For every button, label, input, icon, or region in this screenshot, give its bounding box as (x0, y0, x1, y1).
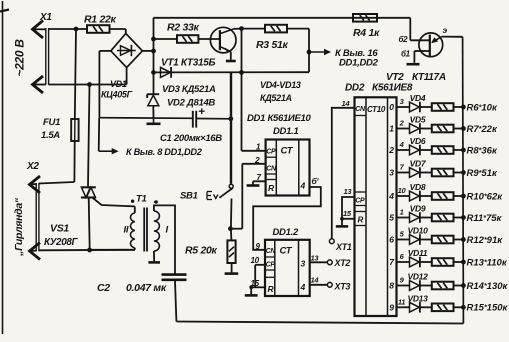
svg-text:КД521А: КД521А (260, 93, 292, 103)
switch SB1 contact (229, 184, 233, 188)
T1 winding II (130, 213, 134, 248)
wire (454, 149, 464, 151)
svg-text:10: 10 (251, 256, 260, 265)
diode VD3 (161, 67, 171, 77)
svg-text:SB1: SB1 (180, 191, 198, 202)
resistor R12 (432, 236, 454, 244)
svg-text:6: 6 (389, 235, 394, 245)
svg-text:VD1: VD1 (110, 79, 127, 89)
wire (397, 195, 410, 197)
DD1.1 output wire to DD1.2 (253, 187, 321, 250)
node junction (bus) (461, 194, 466, 199)
diode VD12 (410, 281, 420, 291)
resistor R13 (432, 258, 454, 266)
wire (241, 29, 243, 151)
wire (454, 172, 464, 174)
capacitor C1 (polarized) (192, 111, 194, 128)
wire (134, 206, 136, 213)
wire (230, 228, 242, 230)
wire (88, 85, 90, 187)
ground symbol (DD1.1 R) (252, 181, 254, 185)
svg-text:R14*130к: R14*130к (467, 281, 509, 292)
svg-text:К Выв. 8 DD1,DD2: К Выв. 8 DD1,DD2 (126, 147, 203, 157)
svg-text:3: 3 (389, 168, 394, 178)
node junction (151, 49, 156, 54)
wire (emitter to bus) (442, 36, 463, 38)
svg-text:ХТ2: ХТ2 (334, 258, 351, 268)
svg-text:VD7: VD7 (410, 159, 427, 169)
node junction (249, 285, 253, 289)
connector X2 contact lines (35, 183, 37, 251)
wire (287, 28, 309, 30)
capacitor C2 (162, 273, 187, 276)
svg-text:R2 33к: R2 33к (167, 22, 200, 34)
diode VD7 (410, 168, 420, 178)
svg-text:VD5: VD5 (410, 115, 426, 125)
svg-text:1: 1 (389, 124, 394, 134)
svg-text:VD2 Д814В: VD2 Д814В (167, 98, 215, 109)
svg-text:VD4: VD4 (410, 93, 426, 103)
svg-text:VD13: VD13 (407, 293, 428, 303)
wire (DD2 clock / XT1) (332, 108, 355, 239)
svg-text:С2: С2 (97, 282, 110, 294)
svg-text:VD10: VD10 (407, 226, 428, 236)
svg-text:4: 4 (300, 181, 306, 191)
VT1 emitter to ground (230, 52, 232, 60)
svg-text:VT2: VT2 (386, 72, 404, 83)
connector X2 pin arrow (bottom) (30, 243, 41, 260)
svg-text:VD6: VD6 (410, 136, 426, 146)
node junction (VS1 branch) (87, 82, 92, 87)
svg-text:15: 15 (343, 209, 352, 218)
svg-text:э: э (443, 25, 448, 35)
svg-text:11: 11 (398, 298, 405, 307)
svg-text:R3 51к: R3 51к (256, 39, 289, 51)
wire (409, 18, 411, 41)
svg-text:DD2: DD2 (345, 83, 365, 94)
label Girlyanda (garland) (13, 197, 25, 257)
wire (397, 149, 410, 151)
svg-text:R5 20к: R5 20к (185, 245, 218, 257)
wire (420, 217, 431, 219)
svg-text:VD11: VD11 (408, 248, 428, 258)
DD1.1 pin 7 wire (253, 180, 266, 182)
wire (49, 28, 87, 30)
diode VD8 (410, 191, 420, 201)
svg-text:10: 10 (398, 186, 407, 195)
DD1.1 pin 2 wire (242, 163, 265, 165)
DD2 CP/R wires (342, 197, 355, 225)
svg-text:Т1: Т1 (136, 194, 147, 205)
node junction (bus) (461, 237, 466, 242)
terminal XT3 (327, 282, 332, 287)
transistor VT1 KT315B (210, 27, 236, 53)
node junction (307, 50, 312, 55)
node junction (bus) (461, 126, 466, 131)
wire (454, 128, 464, 130)
svg-text:4: 4 (300, 282, 306, 292)
resistor R4 (353, 14, 377, 22)
wire to XT2 (310, 261, 328, 263)
resistor R8 (432, 146, 454, 154)
resistor R11 (432, 214, 454, 222)
svg-text:R7*22к: R7*22к (467, 124, 498, 135)
svg-text:СN: СN (355, 106, 366, 113)
svg-text:2: 2 (388, 145, 394, 155)
node junction (228, 116, 233, 121)
wire (134, 248, 136, 250)
svg-text:К561ИЕ8: К561ИЕ8 (372, 83, 413, 94)
wire (126, 68, 128, 85)
wire (154, 71, 310, 73)
connector X1 contact lines (45, 28, 47, 85)
wire (33, 84, 46, 86)
ground symbol (T1 winding I) (148, 261, 160, 264)
wire (154, 201, 156, 203)
wire (397, 239, 410, 241)
connector X2 pin arrow (top) (30, 176, 41, 193)
diode VD5 (410, 124, 420, 134)
node junction (bus) (461, 105, 466, 110)
DD1.2 pin 10 wire (255, 264, 265, 266)
node junction (fuse tap) (74, 27, 79, 32)
ground symbol (DD2 CP,R) (336, 225, 348, 228)
svg-text:DD1 К561ИЕ10: DD1 К561ИЕ10 (247, 113, 311, 124)
wire (397, 261, 410, 263)
wire (420, 128, 431, 130)
svg-text:~220 В: ~220 В (13, 39, 27, 77)
ground symbol (DD1.2 R) (250, 287, 252, 294)
VS1 gate wire (93, 198, 135, 207)
svg-text:VD12: VD12 (407, 272, 428, 282)
svg-text:КЦ405Г: КЦ405Г (101, 90, 133, 100)
wire (420, 306, 431, 308)
wire (98, 118, 101, 152)
resistor R2 (177, 35, 198, 43)
svg-text:б2: б2 (399, 35, 409, 44)
wire (154, 38, 178, 40)
svg-text:б1: б1 (401, 50, 411, 59)
svg-text:„Гирлянда“: „Гирлянда“ (13, 197, 25, 257)
svg-text:13: 13 (344, 187, 353, 196)
counter DD1.2 box (265, 240, 310, 296)
wire (420, 149, 431, 151)
svg-text:1.5А: 1.5А (41, 130, 60, 141)
svg-text:R4 1к: R4 1к (353, 27, 380, 39)
resistor R6 (432, 103, 454, 111)
wire (110, 28, 126, 30)
wire (454, 285, 464, 287)
svg-text:СТ: СТ (280, 246, 293, 257)
ground symbol (R5) (225, 272, 239, 275)
svg-text:3: 3 (301, 259, 306, 269)
svg-text:R: R (358, 216, 364, 225)
svg-text:DD1.2: DD1.2 (273, 227, 299, 238)
node junction (bus) (461, 305, 466, 310)
ground symbol (VT2 b1) (407, 63, 420, 66)
wire (454, 261, 464, 263)
svg-text:СР: СР (266, 149, 276, 156)
wire (142, 50, 153, 52)
wire (39, 182, 75, 184)
svg-text:R13*110к: R13*110к (467, 257, 508, 268)
node junction (bus) (461, 170, 466, 175)
wire (420, 285, 431, 287)
switch SB1 actuator (206, 192, 208, 200)
wire (234, 28, 242, 30)
T1 core (143, 208, 145, 252)
svg-text:VT1 КТ315Б: VT1 КТ315Б (161, 58, 215, 69)
wire (230, 199, 233, 229)
wire (397, 128, 410, 130)
counter DD1.1 box (266, 140, 310, 196)
node junction (239, 26, 244, 31)
resistor R15 (432, 304, 454, 312)
svg-text:Х2: Х2 (26, 161, 39, 172)
node junction (bus) (461, 260, 466, 265)
node junction (340, 217, 344, 221)
svg-text:DD1.1: DD1.1 (273, 126, 298, 137)
svg-text:0: 0 (389, 102, 394, 112)
switch SB1 lever (219, 188, 233, 198)
svg-text:14: 14 (311, 276, 320, 285)
svg-text:СР: СР (266, 262, 276, 269)
wire (231, 263, 233, 273)
svg-text:R9*51к: R9*51к (467, 168, 498, 179)
resistor R1 (87, 25, 110, 33)
svg-text:R8*36к: R8*36к (467, 145, 498, 156)
wire (397, 306, 410, 308)
wire (420, 195, 431, 197)
triac VS1 (81, 186, 96, 188)
svg-text:VS1: VS1 (50, 223, 69, 235)
diode VD4 (410, 102, 420, 112)
svg-text:R1 22к: R1 22к (84, 14, 117, 26)
node junction (228, 226, 233, 231)
ground symbol (153, 118, 155, 123)
resistor R9 (432, 169, 454, 177)
svg-text:СТ: СТ (281, 146, 294, 157)
wire (49, 84, 127, 86)
DD1.1 pin 1 wire (242, 150, 266, 152)
svg-text:9: 9 (389, 303, 394, 313)
DD1.2 pin 15 wire (251, 286, 265, 288)
node junction (bus) (461, 148, 466, 153)
svg-text:R15*150к: R15*150к (467, 303, 509, 314)
svg-text:R6*10к: R6*10к (467, 102, 498, 113)
wire (39, 249, 135, 252)
diode VD6 (410, 145, 420, 155)
resistor R10 (432, 192, 454, 200)
svg-text:4: 4 (388, 191, 394, 201)
svg-text:VD9: VD9 (410, 204, 426, 214)
terminal XT2 (327, 260, 332, 265)
T1 winding I (154, 211, 160, 251)
svg-text:8: 8 (389, 281, 394, 291)
svg-text:ХТ1: ХТ1 (335, 242, 352, 252)
svg-text:2: 2 (254, 155, 260, 165)
wire (33, 28, 46, 30)
connector X1 pin arrow (bottom) (33, 76, 44, 93)
svg-text:0.047 мк: 0.047 мк (126, 282, 167, 294)
svg-text:1: 1 (400, 208, 404, 217)
zener diode VD2 (148, 95, 159, 106)
wire (454, 106, 464, 108)
node junction (bus) (461, 283, 466, 288)
wire (397, 285, 410, 287)
arrow to pin 8 of DD1,DD2 (99, 150, 114, 152)
svg-text:С1 200мк×16В: С1 200мк×16В (160, 133, 222, 144)
node junction (87, 248, 92, 253)
connector X1 pin arrow (top) (33, 21, 44, 39)
node junction (151, 70, 156, 75)
wire (153, 18, 155, 95)
wire (454, 195, 464, 197)
wire to XT3 (310, 284, 328, 286)
resistor R3 (265, 25, 287, 33)
ground symbol (VT1 emitter) (226, 60, 236, 63)
wire (420, 172, 431, 174)
wire (99, 50, 110, 52)
wire (420, 239, 431, 241)
bridge rectifier VD1 (111, 34, 143, 68)
wire (397, 217, 410, 219)
wire (420, 261, 431, 263)
svg-text:5: 5 (389, 213, 394, 223)
resistor R5 (227, 240, 235, 263)
svg-text:VD4-VD13: VD4-VD13 (260, 80, 301, 90)
wire (454, 239, 464, 241)
resistor R14 (432, 282, 454, 290)
node junction (239, 70, 244, 75)
wire (397, 106, 410, 108)
wire (242, 28, 266, 30)
svg-text:II: II (124, 225, 129, 236)
svg-text:СР: СР (355, 198, 365, 205)
wire (454, 217, 464, 219)
wire (230, 229, 233, 241)
label ~220 V (13, 39, 27, 77)
scan page border (left edge) (2, 1, 4, 334)
transistor VT2 KT117A (419, 33, 443, 57)
svg-text:VD3 КД521А: VD3 КД521А (162, 84, 216, 95)
svg-text:ХТ3: ХТ3 (334, 282, 351, 292)
wire (397, 172, 410, 174)
svg-text:КТ117А: КТ117А (412, 72, 446, 83)
diode VD13 (410, 302, 420, 312)
node junction (bus) (461, 215, 466, 220)
diode VD11 (410, 257, 420, 267)
svg-text:СN: СN (266, 166, 277, 173)
svg-text:13: 13 (311, 254, 320, 263)
svg-text:DD1,DD2: DD1,DD2 (339, 58, 379, 69)
svg-text:СN: СN (266, 248, 277, 255)
wire (top supply rail) (154, 17, 411, 19)
wire (198, 38, 220, 40)
svg-text:VD8: VD8 (410, 182, 426, 192)
arrow to pin 16 of DD1,DD2 (309, 51, 326, 53)
counter DD2 box (355, 97, 397, 316)
T1 phasing dot (I) (155, 200, 158, 203)
diode VD9 (410, 213, 420, 223)
wire (bottom rail) (176, 322, 463, 324)
wire (420, 106, 431, 108)
fuse FU1 (75, 29, 76, 119)
wire (454, 306, 464, 308)
terminal XT1 (329, 239, 334, 244)
svg-text:КУ208Г: КУ208Г (44, 237, 79, 248)
wire (196, 118, 231, 120)
svg-text:FU1: FU1 (43, 117, 60, 128)
resistor R7 (432, 125, 454, 133)
svg-text:СТ10: СТ10 (367, 105, 386, 114)
node junction (151, 37, 156, 42)
wire (153, 251, 155, 262)
diode VD10 (410, 235, 420, 245)
wire (230, 72, 232, 183)
wire (common rail) (99, 117, 192, 120)
T1 phasing dot (II) (131, 200, 134, 203)
svg-text:14: 14 (342, 99, 351, 108)
